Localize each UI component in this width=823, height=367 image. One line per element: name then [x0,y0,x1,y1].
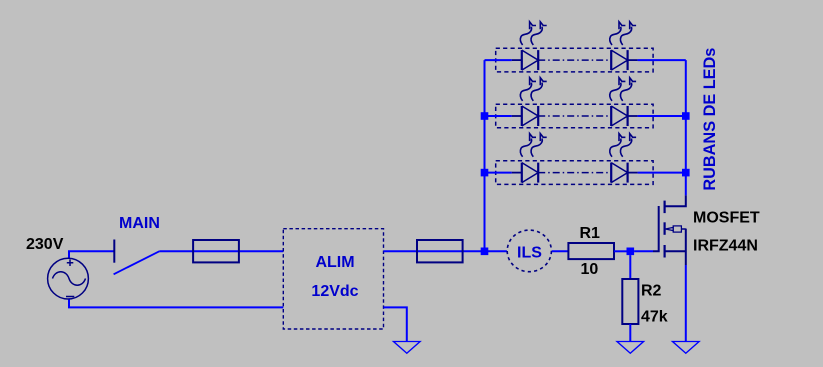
node [682,169,690,177]
wire [552,250,569,252]
wire [538,115,611,117]
wire [629,324,631,342]
wire [538,172,611,174]
fuse F1 [193,240,239,262]
wire [69,251,114,258]
svg-text:10: 10 [581,261,599,278]
svg-text:R1: R1 [580,225,601,242]
svg-text:MAIN: MAIN [119,215,160,232]
wire [484,60,486,251]
node B [627,248,635,256]
transistor Q1 IRFZ44N [653,195,686,265]
wire [628,172,638,174]
wire [638,115,686,117]
svg-text:230V: 230V [26,236,64,253]
wire [538,59,611,61]
wire [485,115,512,117]
wire [629,255,631,279]
node A [481,248,489,256]
svg-text:MOSFET: MOSFET [693,210,760,227]
wire [485,59,512,61]
light arrows [610,134,636,157]
LED strip row 1 box [496,48,653,72]
node [682,112,690,120]
wire [685,60,687,195]
LED D3 [522,106,538,126]
wire [638,59,686,61]
svg-text:ILS: ILS [517,244,542,261]
LED D6 [611,163,627,183]
AC source 230V [48,258,89,299]
wire [512,59,522,61]
svg-text:IRFZ44N: IRFZ44N [693,237,758,254]
reed switch ILS [507,230,551,272]
wire [628,59,638,61]
svg-text:12Vdc: 12Vdc [311,283,358,300]
LED strip row 3 box [496,161,653,185]
wire [384,250,507,252]
light arrows [610,78,636,101]
wire [614,250,627,252]
wire [384,307,407,341]
wire [638,172,686,174]
wire [69,300,283,308]
LED D5 [522,163,538,183]
ground [394,342,421,354]
wire [159,250,283,252]
light arrows [520,134,546,157]
wire [628,115,638,117]
light arrows [520,78,546,101]
svg-text:47k: 47k [641,309,668,326]
LED D2 [611,50,627,70]
fuse F2 [417,240,463,262]
node [481,112,489,120]
svg-text:RUBANS DE LEDs: RUBANS DE LEDs [701,48,719,191]
ground [617,342,644,354]
wire [512,172,522,174]
resistor R1 [568,243,614,259]
switch S1 MAIN [114,240,160,275]
svg-text:ALIM: ALIM [315,254,354,271]
ground [673,342,700,354]
light arrows [610,22,636,45]
LED D1 [522,50,538,70]
wire [512,115,522,117]
wire [485,172,512,174]
svg-text:R2: R2 [641,282,662,299]
light arrows [520,22,546,45]
wire [634,250,653,252]
node [481,169,489,177]
wire [685,265,687,342]
LED D4 [611,106,627,126]
resistor R2 [622,279,638,324]
LED strip row 2 box [496,104,653,128]
power supply ALIM 12Vdc [283,229,383,329]
